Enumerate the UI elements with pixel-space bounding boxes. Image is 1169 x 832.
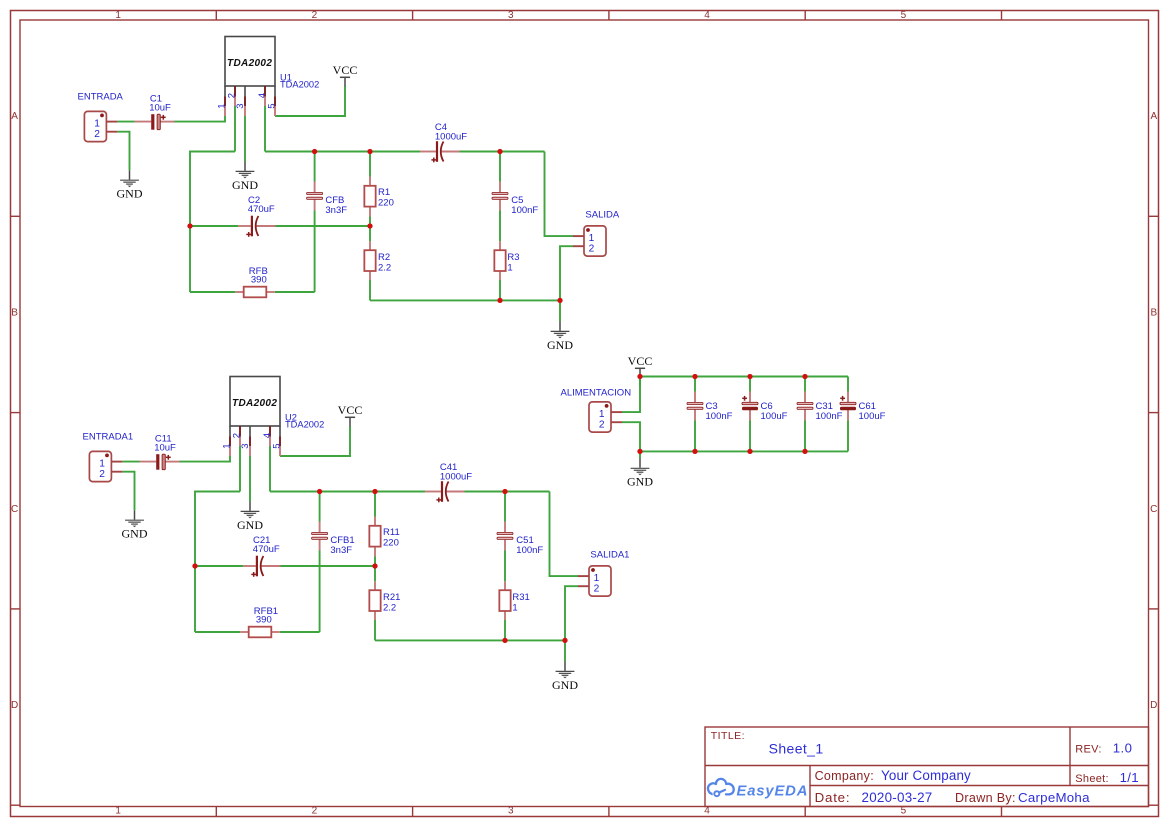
svg-text:ALIMENTACION: ALIMENTACION bbox=[561, 387, 632, 398]
svg-text:R21: R21 bbox=[383, 592, 400, 603]
svg-text:GND: GND bbox=[232, 178, 258, 192]
svg-text:ENTRADA: ENTRADA bbox=[78, 91, 124, 102]
svg-text:ENTRADA1: ENTRADA1 bbox=[83, 431, 134, 442]
svg-text:1: 1 bbox=[217, 104, 228, 109]
svg-text:2: 2 bbox=[99, 469, 105, 480]
svg-text:Sheet_1: Sheet_1 bbox=[769, 740, 824, 756]
svg-text:Drawn By:: Drawn By: bbox=[955, 791, 1016, 805]
svg-text:4: 4 bbox=[257, 93, 268, 98]
svg-text:470uF: 470uF bbox=[248, 204, 275, 215]
svg-text:3n3F: 3n3F bbox=[325, 205, 347, 216]
svg-text:100uF: 100uF bbox=[859, 411, 886, 422]
svg-text:2: 2 bbox=[94, 129, 100, 140]
svg-text:470uF: 470uF bbox=[253, 544, 280, 555]
svg-text:1: 1 bbox=[512, 603, 517, 614]
svg-text:D: D bbox=[11, 700, 18, 711]
svg-text:A: A bbox=[1150, 111, 1157, 122]
svg-text:1: 1 bbox=[115, 10, 121, 21]
svg-text:2.2: 2.2 bbox=[378, 263, 391, 274]
svg-text:2: 2 bbox=[589, 243, 595, 254]
svg-text:Your Company: Your Company bbox=[881, 768, 971, 783]
svg-text:R31: R31 bbox=[512, 592, 529, 603]
svg-text:VCC: VCC bbox=[628, 354, 653, 368]
svg-text:2: 2 bbox=[312, 806, 318, 817]
svg-text:R3: R3 bbox=[507, 252, 519, 263]
svg-text:VCC: VCC bbox=[338, 403, 363, 417]
svg-text:100nF: 100nF bbox=[511, 205, 538, 216]
svg-text:Company:: Company: bbox=[815, 769, 874, 783]
svg-text:1/1: 1/1 bbox=[1120, 770, 1139, 785]
svg-text:4: 4 bbox=[704, 10, 710, 21]
svg-text:2: 2 bbox=[312, 10, 318, 21]
svg-text:TDA2002: TDA2002 bbox=[280, 80, 319, 90]
svg-text:B: B bbox=[11, 307, 18, 318]
svg-text:4: 4 bbox=[704, 806, 710, 817]
svg-text:3: 3 bbox=[508, 806, 514, 817]
svg-text:B: B bbox=[1150, 307, 1157, 318]
svg-text:2: 2 bbox=[594, 583, 600, 594]
svg-text:100uF: 100uF bbox=[761, 411, 788, 422]
svg-text:GND: GND bbox=[122, 527, 148, 541]
svg-text:4: 4 bbox=[262, 433, 273, 438]
svg-text:3n3F: 3n3F bbox=[330, 545, 352, 556]
svg-text:2: 2 bbox=[599, 419, 605, 430]
svg-text:1000uF: 1000uF bbox=[440, 472, 472, 483]
svg-text:TDA2002: TDA2002 bbox=[227, 58, 272, 69]
svg-text:2.2: 2.2 bbox=[383, 603, 396, 614]
svg-text:TITLE:: TITLE: bbox=[711, 730, 745, 742]
svg-text:220: 220 bbox=[383, 538, 399, 549]
svg-text:1000uF: 1000uF bbox=[435, 132, 467, 143]
svg-text:100nF: 100nF bbox=[706, 411, 733, 422]
svg-text:GND: GND bbox=[237, 518, 263, 532]
svg-text:GND: GND bbox=[627, 475, 653, 489]
svg-text:SALIDA: SALIDA bbox=[585, 210, 619, 221]
svg-text:100nF: 100nF bbox=[816, 411, 843, 422]
svg-text:REV:: REV: bbox=[1075, 744, 1101, 756]
svg-text:2020-03-27: 2020-03-27 bbox=[862, 790, 933, 805]
svg-text:GND: GND bbox=[552, 678, 578, 692]
svg-text:3: 3 bbox=[235, 104, 246, 109]
svg-text:D: D bbox=[1150, 700, 1157, 711]
svg-text:5: 5 bbox=[901, 10, 907, 21]
svg-text:1: 1 bbox=[507, 263, 512, 274]
svg-text:C: C bbox=[1150, 504, 1157, 515]
svg-text:C: C bbox=[11, 504, 18, 515]
svg-text:EasyEDA: EasyEDA bbox=[737, 783, 809, 799]
svg-text:2: 2 bbox=[227, 93, 238, 98]
svg-text:VCC: VCC bbox=[333, 63, 358, 77]
svg-text:Sheet:: Sheet: bbox=[1075, 773, 1109, 785]
svg-text:3: 3 bbox=[240, 444, 251, 449]
svg-text:A: A bbox=[11, 111, 18, 122]
svg-text:390: 390 bbox=[251, 274, 267, 285]
svg-text:Date:: Date: bbox=[815, 790, 851, 805]
svg-text:5: 5 bbox=[266, 104, 277, 109]
svg-text:100nF: 100nF bbox=[516, 545, 543, 556]
svg-text:R1: R1 bbox=[378, 187, 390, 198]
svg-text:220: 220 bbox=[378, 198, 394, 209]
svg-text:10uF: 10uF bbox=[149, 103, 171, 114]
svg-text:5: 5 bbox=[901, 806, 907, 817]
svg-text:10uF: 10uF bbox=[154, 443, 176, 454]
svg-text:GND: GND bbox=[117, 187, 143, 201]
svg-text:1: 1 bbox=[222, 444, 233, 449]
svg-text:2: 2 bbox=[232, 433, 243, 438]
svg-text:R2: R2 bbox=[378, 252, 390, 263]
svg-text:5: 5 bbox=[271, 444, 282, 449]
svg-text:1.0: 1.0 bbox=[1113, 741, 1133, 756]
svg-text:CarpeMoha: CarpeMoha bbox=[1018, 790, 1090, 805]
svg-text:1: 1 bbox=[115, 806, 121, 817]
svg-text:GND: GND bbox=[547, 338, 573, 352]
svg-text:SALIDA1: SALIDA1 bbox=[590, 550, 629, 561]
svg-text:TDA2002: TDA2002 bbox=[285, 420, 324, 430]
svg-text:3: 3 bbox=[508, 10, 514, 21]
svg-text:390: 390 bbox=[256, 614, 272, 625]
svg-text:TDA2002: TDA2002 bbox=[232, 398, 277, 409]
svg-text:R11: R11 bbox=[383, 527, 400, 538]
